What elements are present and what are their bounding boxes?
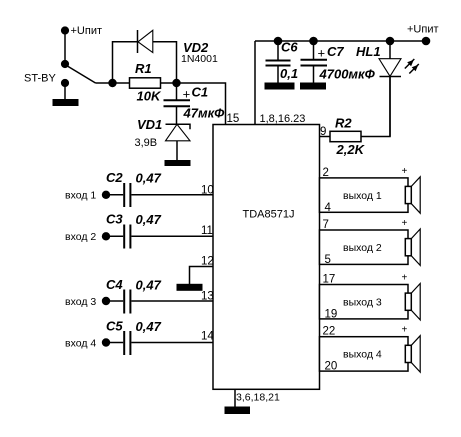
svg-text:выход 1: выход 1 bbox=[343, 190, 382, 202]
wire bbox=[131, 194, 213, 196]
svg-text:19: 19 bbox=[325, 308, 338, 320]
svg-text:+: + bbox=[402, 166, 408, 177]
wire bbox=[161, 82, 177, 84]
wire bbox=[113, 42, 138, 83]
op-amp IC U1 TDA8571J bbox=[213, 125, 320, 390]
svg-text:14: 14 bbox=[201, 331, 214, 343]
wire bbox=[106, 300, 123, 302]
node junction B bbox=[172, 79, 180, 87]
svg-text:0,47: 0,47 bbox=[136, 277, 162, 292]
ground bbox=[265, 83, 295, 90]
wire bbox=[106, 342, 123, 344]
svg-text:0,1: 0,1 bbox=[280, 66, 298, 81]
node HL1 bbox=[386, 37, 395, 46]
svg-text:12: 12 bbox=[201, 256, 214, 268]
svg-text:вход 1: вход 1 bbox=[65, 190, 96, 202]
capacitor C3 bbox=[124, 225, 130, 249]
svg-text:+: + bbox=[318, 46, 326, 61]
node C6 bbox=[274, 37, 283, 46]
output 3 loop bbox=[320, 285, 409, 319]
svg-text:+Uпит: +Uпит bbox=[71, 25, 103, 37]
node +Upit right terminal bbox=[422, 37, 431, 46]
wire bbox=[176, 106, 178, 124]
svg-text:0,47: 0,47 bbox=[136, 319, 162, 334]
svg-text:+: + bbox=[402, 273, 408, 284]
svg-text:22: 22 bbox=[323, 326, 336, 338]
ground bbox=[225, 407, 251, 415]
svg-text:1N4001: 1N4001 bbox=[181, 53, 218, 65]
svg-text:1,8,16.23: 1,8,16.23 bbox=[260, 113, 306, 125]
svg-text:HL1: HL1 bbox=[356, 44, 381, 59]
capacitor C6 bbox=[266, 61, 291, 66]
wire bbox=[113, 82, 130, 84]
wire bbox=[313, 66, 315, 84]
node C7 bbox=[309, 37, 318, 46]
output 1 loop bbox=[320, 178, 409, 212]
svg-text:C7: C7 bbox=[327, 44, 344, 59]
ground bbox=[53, 99, 79, 106]
svg-text:C4: C4 bbox=[106, 277, 123, 292]
node input 1 bbox=[102, 191, 110, 199]
switch ST-BY blade bbox=[67, 66, 96, 84]
svg-text:47мкФ: 47мкФ bbox=[183, 106, 226, 121]
ground bbox=[165, 160, 191, 166]
resistor R2 bbox=[330, 131, 361, 141]
svg-text:+: + bbox=[402, 325, 408, 336]
svg-text:5: 5 bbox=[325, 254, 331, 266]
output 2 loop bbox=[320, 230, 409, 264]
svg-text:R1: R1 bbox=[135, 61, 152, 76]
wire IC ground bbox=[234, 389, 236, 407]
speaker BA1 bbox=[405, 177, 420, 213]
svg-text:C6: C6 bbox=[281, 40, 298, 55]
wire bbox=[389, 77, 391, 137]
svg-text:выход 3: выход 3 bbox=[343, 296, 382, 308]
svg-text:VD1: VD1 bbox=[137, 117, 162, 132]
wire bbox=[277, 41, 279, 60]
wire to pin 15 bbox=[177, 83, 226, 125]
ground bbox=[300, 83, 326, 90]
capacitor C7 bbox=[301, 60, 328, 66]
node input 2 bbox=[102, 232, 110, 240]
ground bbox=[177, 284, 203, 291]
node +Upit left terminal bbox=[61, 26, 69, 34]
svg-text:C1: C1 bbox=[192, 85, 209, 100]
wire bbox=[106, 194, 123, 196]
svg-text:20: 20 bbox=[325, 361, 338, 373]
LED arrows bbox=[405, 59, 419, 74]
svg-text:2,2K: 2,2K bbox=[336, 142, 366, 157]
svg-text:0,47: 0,47 bbox=[136, 171, 162, 186]
LED HL1 bbox=[379, 59, 401, 77]
wire pin 12 to ground bbox=[190, 267, 214, 285]
svg-text:+: + bbox=[183, 87, 191, 102]
svg-text:15: 15 bbox=[227, 113, 240, 125]
node input 3 bbox=[102, 297, 110, 305]
wire bbox=[153, 42, 177, 83]
svg-text:вход 2: вход 2 bbox=[65, 231, 96, 243]
diode VD2 bbox=[138, 30, 153, 53]
capacitor C1 bbox=[164, 100, 191, 106]
svg-text:выход 4: выход 4 bbox=[343, 349, 382, 361]
svg-text:C2: C2 bbox=[106, 170, 123, 185]
capacitor C2 bbox=[124, 183, 130, 207]
wire top supply bus bbox=[255, 40, 426, 42]
wire bbox=[131, 342, 213, 344]
svg-text:11: 11 bbox=[201, 225, 213, 237]
svg-text:4: 4 bbox=[325, 202, 332, 214]
output 4 loop bbox=[320, 337, 409, 371]
svg-text:4700мкФ: 4700мкФ bbox=[319, 67, 376, 82]
svg-text:вход 3: вход 3 bbox=[65, 296, 96, 308]
wire bbox=[361, 77, 390, 137]
wire bbox=[106, 235, 123, 237]
wire bbox=[176, 83, 178, 100]
svg-text:10: 10 bbox=[201, 185, 214, 197]
svg-text:вход 4: вход 4 bbox=[65, 337, 96, 349]
zener diode VD1 bbox=[166, 124, 191, 141]
wire bbox=[176, 141, 178, 161]
svg-text:0,47: 0,47 bbox=[136, 212, 162, 227]
svg-text:+: + bbox=[402, 218, 408, 229]
wire bbox=[320, 136, 331, 138]
capacitor C5 bbox=[124, 331, 130, 355]
wire to pins 1,8,16,23 bbox=[254, 41, 256, 125]
svg-text:выход 2: выход 2 bbox=[343, 242, 382, 254]
svg-text:13: 13 bbox=[201, 291, 214, 303]
capacitor C4 bbox=[124, 290, 130, 314]
svg-text:TDA8571J: TDA8571J bbox=[243, 209, 295, 221]
svg-text:R2: R2 bbox=[335, 116, 352, 131]
svg-text:7: 7 bbox=[323, 219, 329, 231]
wire bbox=[131, 235, 213, 237]
wire bbox=[313, 41, 315, 60]
svg-text:C3: C3 bbox=[106, 212, 123, 227]
svg-text:17: 17 bbox=[323, 274, 336, 286]
speaker BA4 bbox=[405, 336, 420, 372]
svg-text:10K: 10K bbox=[137, 89, 162, 104]
speaker BA2 bbox=[405, 229, 420, 265]
svg-text:3,6,18,21: 3,6,18,21 bbox=[236, 392, 280, 404]
speaker BA3 bbox=[405, 284, 420, 320]
resistor R1 bbox=[130, 78, 161, 88]
wire bbox=[64, 83, 66, 100]
wire bbox=[64, 31, 66, 65]
switch ST-BY contact upper bbox=[61, 60, 69, 68]
switch ST-BY contact lower bbox=[61, 79, 69, 87]
wire bbox=[277, 66, 279, 84]
wire bbox=[389, 41, 391, 59]
svg-text:3,9В: 3,9В bbox=[135, 137, 158, 149]
svg-text:ST-BY: ST-BY bbox=[24, 73, 56, 85]
svg-text:2: 2 bbox=[323, 167, 329, 179]
svg-text:C5: C5 bbox=[106, 318, 123, 333]
node junction A bbox=[108, 79, 116, 87]
wire bbox=[96, 82, 113, 84]
wire bbox=[131, 300, 213, 302]
node input 4 bbox=[102, 338, 110, 346]
svg-text:+Uпит: +Uпит bbox=[407, 24, 439, 36]
